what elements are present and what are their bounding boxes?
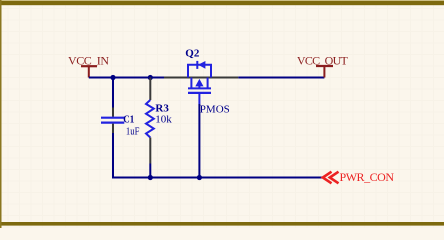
power port VCC_IN (68, 54, 109, 78)
node junction R3 bottom (148, 175, 153, 180)
body diode cathode bar (196, 61, 198, 69)
substrate arrow (198, 84, 200, 88)
right leg (207, 78, 209, 89)
resistor R3 (146, 78, 172, 164)
pin 2 (112, 124, 114, 133)
border frame (decorative) (0, 0, 444, 1)
wire Q2 to VCC_OUT (238, 77, 324, 79)
wire gate to bottom rail (198, 104, 200, 178)
svg-text:1uF: 1uF (126, 126, 140, 137)
chevron inner (330, 172, 339, 184)
pin 2 (149, 138, 151, 164)
svg-text:PWR_CON: PWR_CON (340, 170, 395, 184)
svg-text:10k: 10k (155, 114, 172, 126)
port PWR_CON (323, 170, 395, 184)
zigzag body (146, 100, 154, 138)
wire VCC_IN to Q2 (89, 77, 164, 79)
wire R3 to bottom rail (149, 164, 151, 178)
node junction gate bottom (197, 175, 202, 180)
node junction C1 tap (110, 75, 115, 80)
top plate (101, 117, 124, 119)
power port VCC_OUT (297, 54, 349, 78)
svg-text:C1: C1 (123, 115, 134, 126)
wire junction to C1 (112, 78, 114, 108)
pin 1 (149, 78, 151, 101)
transistor Q2 PMOS (164, 48, 238, 116)
wire C1 to bottom rail (112, 133, 150, 179)
node junction R3 tap (148, 75, 153, 80)
bottom rail wire (150, 177, 322, 179)
pin 1/2 source-drain through line (164, 77, 238, 79)
pin 1 (112, 108, 114, 117)
body diode triangle (198, 61, 205, 69)
svg-text:Q2: Q2 (185, 48, 200, 60)
body diode loop (188, 65, 211, 78)
gate lead (198, 94, 200, 104)
bottom plate (101, 121, 124, 123)
svg-text:PMOS: PMOS (200, 104, 230, 116)
gate plate (188, 92, 211, 94)
left leg (190, 78, 192, 89)
chevron outer (323, 172, 332, 184)
channel bar (188, 87, 211, 89)
capacitor C1 (101, 108, 140, 138)
